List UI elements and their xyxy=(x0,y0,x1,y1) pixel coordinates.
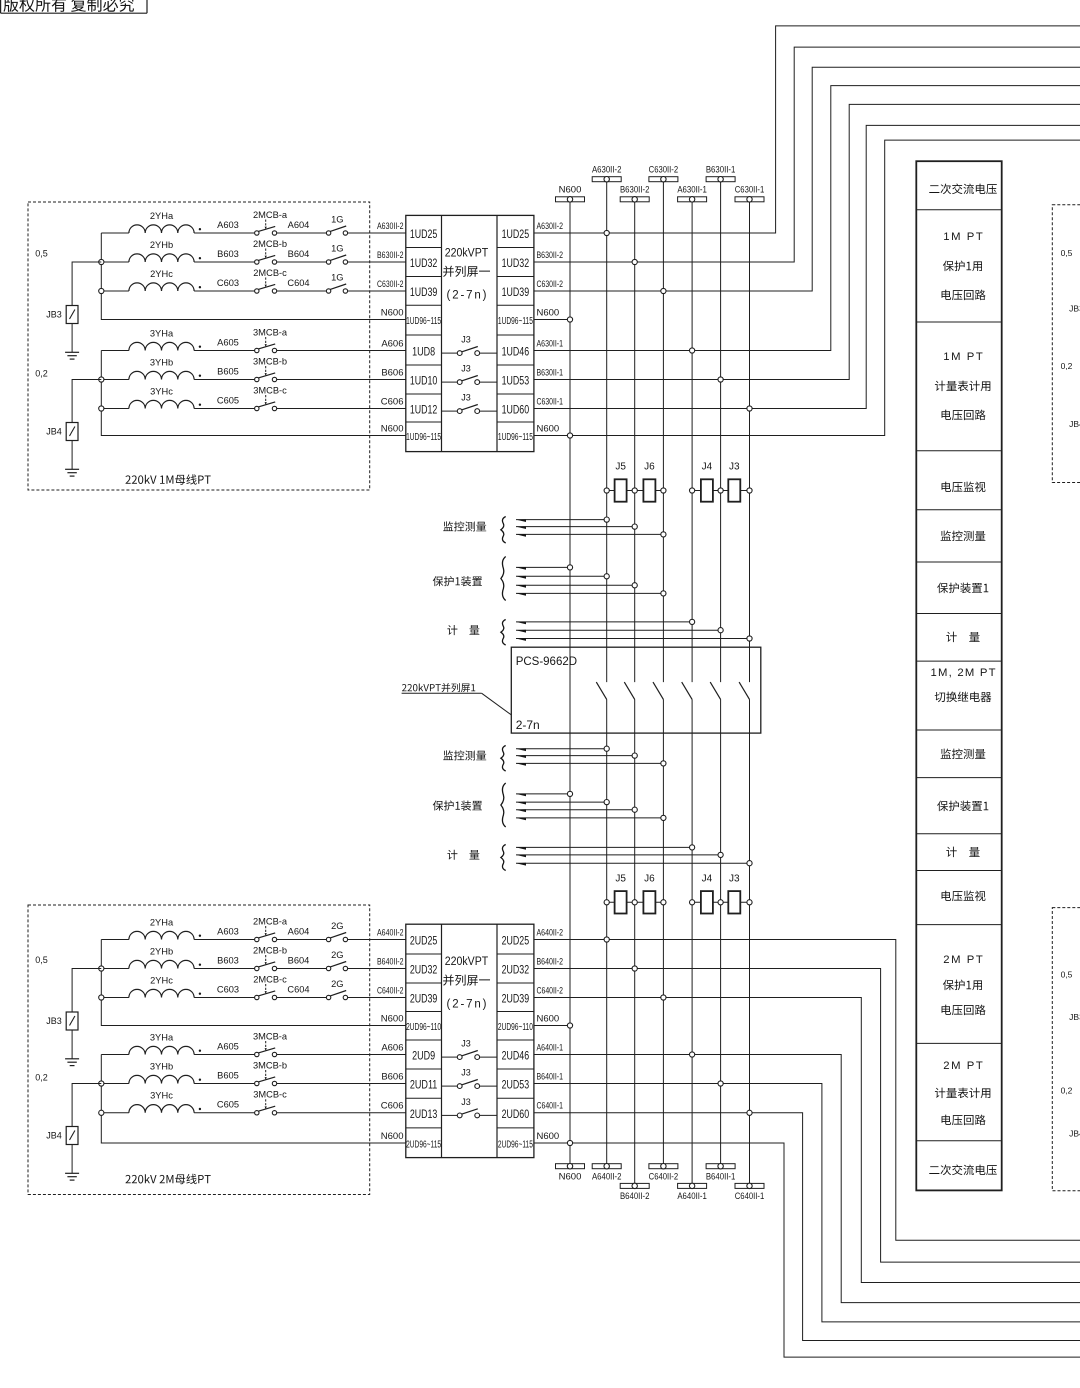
winding 3YHb (220kV 1M bus PT) xyxy=(129,371,194,379)
terminal block 2: cell divider xyxy=(406,1039,442,1041)
svg-text:C604: C604 xyxy=(287,278,309,288)
brace for 保护1装置 xyxy=(501,557,506,601)
bus B630II-2 vertical (above paralleling switch) xyxy=(634,202,636,682)
bus A640II-2 vertical (below paralleling switch) xyxy=(606,699,608,1163)
changeover contact J3 (block 2 row 7) xyxy=(442,1114,458,1116)
junction relay row on A630II-1 (lower) xyxy=(690,900,695,905)
disconnector 2G phase c (220kV 2M bus PT) xyxy=(326,995,330,999)
bus C630II-1 vertical (above paralleling switch) xyxy=(749,202,751,682)
svg-text:2UD25: 2UD25 xyxy=(502,936,530,948)
bus B630II-1 vertical (above paralleling switch) xyxy=(720,182,722,682)
wire 3YHc to 3MCB-c xyxy=(194,408,255,410)
breaker 3MCB-c (220kV 2M bus PT) xyxy=(255,1111,259,1115)
relay coil J3 (upper) xyxy=(721,490,750,492)
bus B640II-1 vertical (below paralleling switch) xyxy=(720,699,722,1163)
junction tap on C630II-2 xyxy=(661,761,666,766)
svg-text:1G: 1G xyxy=(331,243,343,253)
svg-text:J3: J3 xyxy=(729,873,740,884)
relay coil J4 (upper) xyxy=(692,490,721,492)
label 监控测量 xyxy=(443,521,486,531)
relay coil J5 (lower) xyxy=(607,901,635,903)
earth (ground) below JB3 xyxy=(65,1058,79,1060)
svg-text:B630II-1: B630II-1 xyxy=(706,164,736,175)
svg-text:2UD53: 2UD53 xyxy=(502,1080,530,1092)
wire 2G to terminal block row 1 xyxy=(348,939,406,941)
earthing link JB3 (220kV 1M bus PT) xyxy=(72,262,101,306)
svg-text:B606: B606 xyxy=(381,1071,403,1082)
svg-text:0,2: 0,2 xyxy=(1061,361,1073,371)
junction relay row on C630II-2 (upper) xyxy=(661,488,666,493)
breaker 3MCB-b (220kV 1M bus PT) xyxy=(255,377,259,381)
svg-text:2UD60: 2UD60 xyxy=(502,1109,530,1121)
svg-text:A640II-2: A640II-2 xyxy=(377,927,404,938)
wire bus to 3YHc xyxy=(101,1112,129,1114)
paralleling switch blade on B630II-1 xyxy=(710,682,720,699)
svg-text:B640II-1: B640II-1 xyxy=(537,1071,564,1082)
legend 电压回路 (2M) xyxy=(942,1115,986,1126)
svg-text:3MCB-c: 3MCB-c xyxy=(253,385,287,395)
wire 2MCB-b to 1G xyxy=(277,261,327,263)
legend 电压回路 xyxy=(942,410,986,421)
junction tap on C630II-1 xyxy=(747,636,752,641)
220kV 2M bus PT: dashed enclosure xyxy=(28,905,370,1195)
legend 保护1用 (2M) xyxy=(943,980,982,991)
junction relay row on B630II-2 (upper) xyxy=(632,488,637,493)
junction tap on A630II-2 xyxy=(604,746,609,751)
svg-text:C630II-1: C630II-1 xyxy=(735,185,765,196)
svg-text:B630II-2: B630II-2 xyxy=(620,185,650,196)
legend cell divider xyxy=(916,924,1001,926)
wire 2YHc to 2MCB-c xyxy=(194,997,255,999)
bus A640II-1 vertical (below paralleling switch) xyxy=(691,699,693,1183)
svg-text:J3: J3 xyxy=(461,1068,471,1078)
winding 3YHc (220kV 1M bus PT) xyxy=(129,400,194,408)
wire JB3 to earth xyxy=(71,324,73,353)
svg-text:2UD96~115: 2UD96~115 xyxy=(498,1140,533,1151)
tap wire 保护1装置 from N600 xyxy=(516,793,570,795)
terminal strip C640II-1 (bottom) xyxy=(735,1183,764,1188)
svg-text:C603: C603 xyxy=(217,984,239,994)
svg-text:PCS-9662D: PCS-9662D xyxy=(516,656,577,668)
wire 3YHa to 3MCB-a xyxy=(194,350,255,352)
breaker 3MCB-a (220kV 1M bus PT) xyxy=(255,348,259,352)
svg-text:J3: J3 xyxy=(461,335,471,345)
svg-text:1UD60: 1UD60 xyxy=(502,405,530,417)
leader 220kVPT并列屏1 xyxy=(402,683,475,692)
legend 切换继电器 xyxy=(935,692,992,703)
svg-text:C605: C605 xyxy=(217,395,239,405)
svg-text:2M PT: 2M PT xyxy=(943,954,983,966)
svg-text:B640II-2: B640II-2 xyxy=(377,956,404,967)
junction on C640II-1 bus row7 (block2) xyxy=(747,1110,752,1115)
svg-text:2UD39: 2UD39 xyxy=(410,994,438,1006)
svg-text:1UD96~115: 1UD96~115 xyxy=(406,432,441,443)
terminal block 1: cell divider xyxy=(406,421,442,423)
svg-text:J3: J3 xyxy=(461,393,471,403)
wire 2MCB-b to 2G xyxy=(277,968,327,970)
legend cell divider xyxy=(916,1042,1001,1044)
svg-text:C630II-2: C630II-2 xyxy=(537,279,564,290)
legend 计 量 (lower) xyxy=(946,847,979,857)
wire bus to 2YHa xyxy=(101,939,129,941)
brace for 计 量 xyxy=(501,845,506,871)
wire 2YHb to 2MCB-b xyxy=(194,261,255,263)
svg-text:JB3: JB3 xyxy=(46,1016,62,1026)
breaker 2MCB-a (220kV 2M bus PT) xyxy=(255,937,259,941)
paralleling switch blade on B630II-2 xyxy=(624,682,634,699)
label 220kV 2M母线PT xyxy=(125,1174,210,1184)
tap wire 保护1装置 from A630II-2 xyxy=(516,801,607,803)
svg-text:A606: A606 xyxy=(381,338,403,349)
svg-text:2UD32: 2UD32 xyxy=(410,965,438,977)
junction tap on C630II-2 xyxy=(661,815,666,820)
svg-text:A606: A606 xyxy=(381,1042,403,1053)
svg-text:2-7n: 2-7n xyxy=(516,718,540,732)
tap wire 监控测量 from C630II-2 xyxy=(516,533,663,535)
earth (ground) below JB3 xyxy=(65,351,79,353)
junction N600 row4 xyxy=(567,317,572,322)
svg-text:1UD32: 1UD32 xyxy=(502,258,530,270)
wire A640II-2 row1 block2 right, stepped to right edge xyxy=(534,940,1080,1241)
tap wire 保护1装置 from B630II-2 xyxy=(516,584,635,586)
svg-text:J4: J4 xyxy=(702,873,713,884)
junction on B630II-1 bus row6 xyxy=(718,377,723,382)
neutral bus upper group (220kV 1M bus PT) xyxy=(101,233,406,320)
junction relay row on B630II-1 (upper) xyxy=(718,488,723,493)
wire bus to 2YHb xyxy=(101,968,129,970)
terminal block 1: cell divider xyxy=(406,276,442,278)
svg-text:A630II-2: A630II-2 xyxy=(537,221,564,232)
legend cell divider xyxy=(916,321,1001,323)
relay coil J4 (lower) xyxy=(692,901,721,903)
svg-text:A605: A605 xyxy=(217,337,239,347)
wire bus to 3YHc xyxy=(101,408,129,410)
svg-text:C630II-2: C630II-2 xyxy=(649,164,679,175)
breaker 3MCB-c (220kV 1M bus PT) xyxy=(255,406,259,410)
junction on C630II-2 bus row3 xyxy=(661,288,666,293)
earthing link JB4 (220kV 2M bus PT) xyxy=(72,1084,101,1127)
wire bus to 3YHa xyxy=(101,1054,129,1056)
svg-text:C640II-2: C640II-2 xyxy=(377,985,404,996)
svg-text:1M, 2M PT: 1M, 2M PT xyxy=(931,667,996,679)
svg-text:J5: J5 xyxy=(615,462,626,473)
svg-text:B630II-2: B630II-2 xyxy=(537,250,564,261)
wire A630II-1 row5 block1 right, stepped to right edge xyxy=(534,86,1080,351)
svg-text:J3: J3 xyxy=(461,1039,471,1049)
junction on A640II-1 bus row5 (block2) xyxy=(690,1052,695,1057)
svg-text:C604: C604 xyxy=(287,985,309,995)
svg-text:C630II-2: C630II-2 xyxy=(377,279,404,290)
disconnector 2G phase b (220kV 2M bus PT) xyxy=(326,966,330,970)
svg-text:JB3: JB3 xyxy=(1069,304,1080,314)
paralleling switch blade on C630II-1 xyxy=(739,682,749,699)
svg-text:C640II-2: C640II-2 xyxy=(537,985,564,996)
svg-text:2MCB-b: 2MCB-b xyxy=(253,239,287,249)
terminal block 2: cell divider xyxy=(406,953,442,955)
label 版权所有 复制必究 (clipped) xyxy=(3,0,133,12)
legend cell divider xyxy=(916,1140,1001,1142)
breaker 2MCB-c (220kV 2M bus PT) xyxy=(255,995,259,999)
breaker 3MCB-a (220kV 2M bus PT) xyxy=(255,1052,259,1056)
wire 2YHc to 2MCB-c xyxy=(194,290,255,292)
brace for 监控测量 xyxy=(501,746,506,772)
junction tap on A630II-2 xyxy=(604,574,609,579)
svg-text:2UD96~115: 2UD96~115 xyxy=(406,1140,441,1151)
junction on C640II-2 bus row3 (block2) xyxy=(661,995,666,1000)
legend 保护1用 xyxy=(943,261,982,272)
wire 3MCB-c to terminal block row 7 xyxy=(277,1112,406,1114)
svg-text:3YHc: 3YHc xyxy=(150,1091,173,1101)
legend cell divider xyxy=(916,777,1001,779)
svg-text:A640II-1: A640II-1 xyxy=(537,1042,564,1053)
svg-text:C606: C606 xyxy=(381,1101,404,1112)
svg-text:N600: N600 xyxy=(381,307,404,318)
changeover contact J3 (block 2 row 5) xyxy=(442,1056,458,1058)
terminal strip C630II-2 (top) xyxy=(649,177,678,182)
junction relay row on A630II-2 (lower) xyxy=(604,900,609,905)
tap wire 监控测量 from C630II-2 xyxy=(516,762,663,764)
earth (ground) below JB4 xyxy=(65,1172,79,1174)
svg-text:A603: A603 xyxy=(217,220,239,230)
breaker 2MCB-b (220kV 1M bus PT) xyxy=(255,260,259,264)
terminal strip B640II-1 (bottom) xyxy=(706,1164,735,1169)
svg-text:B630II-1: B630II-1 xyxy=(537,367,564,378)
svg-text:3YHb: 3YHb xyxy=(150,357,173,367)
svg-text:J5: J5 xyxy=(615,873,626,884)
svg-text:2M PT: 2M PT xyxy=(943,1060,983,1072)
brace for 监控测量 xyxy=(501,517,506,544)
junction tap on B630II-2 xyxy=(632,807,637,812)
winding 2YHb (220kV 1M bus PT) xyxy=(129,254,194,262)
tap wire 监控测量 from A630II-2 xyxy=(516,748,607,750)
svg-text:0,5: 0,5 xyxy=(1061,248,1073,258)
junction tap on B630II-2 xyxy=(632,524,637,529)
svg-text:N600: N600 xyxy=(381,423,404,434)
bus C630II-2 vertical (above paralleling switch) xyxy=(662,182,664,682)
svg-text:1UD39: 1UD39 xyxy=(410,287,438,299)
svg-text:J3: J3 xyxy=(461,1097,471,1107)
junction tap on C630II-2 xyxy=(661,591,666,596)
wire 2MCB-c to 2G xyxy=(277,997,327,999)
earth (ground) below JB4 xyxy=(65,468,79,470)
svg-text:A640II-2: A640II-2 xyxy=(592,1172,622,1183)
svg-text:220kVPT: 220kVPT xyxy=(445,956,489,968)
svg-text:3MCB-a: 3MCB-a xyxy=(253,1031,288,1041)
bus A630II-1 vertical (above paralleling switch) xyxy=(691,202,693,682)
terminal block 1: right column divider xyxy=(496,215,498,451)
breaker 2MCB-a (220kV 1M bus PT) xyxy=(255,231,259,235)
bus C640II-1 vertical (below paralleling switch) xyxy=(749,699,751,1183)
svg-text:B640II-1: B640II-1 xyxy=(706,1172,736,1183)
svg-text:3MCB-b: 3MCB-b xyxy=(253,356,287,366)
terminal strip B630II-2 (top) xyxy=(620,197,649,202)
legend column frame xyxy=(916,161,1001,1190)
wire 2MCB-a to 2G xyxy=(277,939,327,941)
junction tap on B630II-2 xyxy=(632,753,637,758)
legend 电压回路 (2M) xyxy=(942,1005,986,1016)
svg-text:1UD96~115: 1UD96~115 xyxy=(498,316,533,327)
terminal block 2: left column divider xyxy=(441,924,443,1157)
svg-text:A605: A605 xyxy=(217,1041,239,1051)
wire 3MCB-b to terminal block row 6 xyxy=(277,1083,406,1085)
svg-text:B630II-2: B630II-2 xyxy=(377,250,404,261)
wire C640II-1 row7 block2 right, stepped to right edge xyxy=(534,1113,1080,1341)
wire bus to 2YHc xyxy=(101,997,129,999)
tap wire 计 量 from B630II-1 xyxy=(516,629,721,631)
junction tap on B630II-2 xyxy=(632,583,637,588)
svg-text:C640II-1: C640II-1 xyxy=(537,1101,564,1112)
label 保护1装置 xyxy=(433,800,482,810)
svg-text:B640II-2: B640II-2 xyxy=(537,956,564,967)
wire 3MCB-c to terminal block row 7 xyxy=(277,408,406,410)
wire A640II-1 row5 block2 right, stepped to right edge xyxy=(534,1055,1080,1303)
junction tap on A630II-1 xyxy=(690,845,695,850)
svg-text:2YHb: 2YHb xyxy=(150,240,173,250)
svg-text:N600: N600 xyxy=(381,1013,404,1024)
svg-text:C605: C605 xyxy=(217,1100,239,1110)
terminal strip A640II-2 (bottom) xyxy=(592,1164,621,1169)
svg-text:2UD13: 2UD13 xyxy=(410,1109,438,1121)
svg-text:2UD39: 2UD39 xyxy=(502,994,530,1006)
svg-text:A640II-1: A640II-1 xyxy=(677,1191,707,1202)
terminal block 2: cell divider xyxy=(406,1011,442,1013)
legend cell divider xyxy=(916,833,1001,835)
svg-text:3YHb: 3YHb xyxy=(150,1061,173,1071)
winding 2YHa (220kV 2M bus PT) xyxy=(129,931,194,939)
svg-text:0,5: 0,5 xyxy=(35,955,48,965)
svg-text:1UD96~115: 1UD96~115 xyxy=(406,316,441,327)
svg-text:2G: 2G xyxy=(331,950,343,960)
terminal block 1: cell divider xyxy=(406,334,442,336)
svg-text:2G: 2G xyxy=(331,979,343,989)
junction on C630II-1 bus row7 xyxy=(747,406,752,411)
legend 电压回路 xyxy=(942,290,986,301)
svg-text:1UD10: 1UD10 xyxy=(410,376,438,388)
svg-text:A603: A603 xyxy=(217,926,239,936)
wire N600 row4 block1 to N600 bus xyxy=(534,319,570,321)
wire 2YHb to 2MCB-b xyxy=(194,968,255,970)
svg-text:3YHa: 3YHa xyxy=(150,1032,174,1042)
junction on A640II-2 bus row1 (block2) xyxy=(604,937,609,942)
tap wire 计 量 from C630II-1 xyxy=(516,638,750,640)
svg-text:1UD53: 1UD53 xyxy=(502,376,530,388)
wire 2YHa to 2MCB-a xyxy=(194,232,255,234)
svg-text:2G: 2G xyxy=(331,921,343,931)
wire 2YHa to 2MCB-a xyxy=(194,939,255,941)
junction tap on N600 xyxy=(567,791,572,796)
bus B640II-2 vertical (below paralleling switch) xyxy=(634,699,636,1183)
title block (top-left, clipped) xyxy=(0,0,2,13)
legend 电压监视 (lower) xyxy=(942,891,986,902)
svg-text:2YHb: 2YHb xyxy=(150,946,173,956)
relay coil J6 (upper) xyxy=(635,490,664,492)
tap wire 监控测量 from B630II-2 xyxy=(516,755,635,757)
svg-text:2UD32: 2UD32 xyxy=(502,965,530,977)
legend cell divider xyxy=(916,729,1001,731)
legend 二次交流电压 (bottom) xyxy=(929,1164,997,1175)
svg-text:1UD25: 1UD25 xyxy=(410,229,438,241)
paralleling device PCS-9662D box xyxy=(511,647,761,733)
brace for 计 量 xyxy=(501,620,506,646)
svg-text:C640II-1: C640II-1 xyxy=(735,1191,765,1202)
winding 2YHb (220kV 2M bus PT) xyxy=(129,960,194,968)
junction on A630II-2 bus row1 xyxy=(604,230,609,235)
svg-text:A630II-2: A630II-2 xyxy=(592,164,622,175)
tap wire 保护1装置 from C630II-2 xyxy=(516,592,663,594)
wire 3YHb to 3MCB-b xyxy=(194,1083,255,1085)
far-right dashed enclosure (bottom, clipped) xyxy=(1052,908,1080,1191)
svg-text:3YHa: 3YHa xyxy=(150,328,174,338)
tap wire 计 量 from A630II-1 xyxy=(516,846,692,848)
relay coil J3 (lower) xyxy=(721,901,750,903)
svg-text:1G: 1G xyxy=(331,214,343,224)
tap wire 保护1装置 from C630II-2 xyxy=(516,817,663,819)
terminal strip B640II-2 (bottom) xyxy=(620,1183,649,1188)
wire JB4 to earth xyxy=(71,441,73,470)
svg-text:1UD96~115: 1UD96~115 xyxy=(498,432,533,443)
junction tap on A630II-2 xyxy=(604,517,609,522)
junction relay row on A630II-2 (upper) xyxy=(604,488,609,493)
winding 3YHa (220kV 2M bus PT) xyxy=(129,1046,194,1054)
svg-text:J3: J3 xyxy=(729,462,740,473)
svg-text:C640II-2: C640II-2 xyxy=(649,1172,679,1183)
paralleling switch blade on C630II-2 xyxy=(653,682,663,699)
svg-text:B603: B603 xyxy=(217,249,239,259)
terminal strip A640II-1 (bottom) xyxy=(678,1183,707,1188)
svg-text:N600: N600 xyxy=(537,1013,560,1024)
wire 2G to terminal block row 3 xyxy=(348,997,406,999)
junction on B640II-1 bus row6 (block2) xyxy=(718,1081,723,1086)
wire 1G to terminal block row 1 xyxy=(348,232,406,234)
svg-text:2YHa: 2YHa xyxy=(150,917,174,927)
terminal block 2: cell divider xyxy=(406,1127,442,1129)
junction tap on A630II-2 xyxy=(604,800,609,805)
svg-text:B640II-2: B640II-2 xyxy=(620,1191,650,1202)
wire 3MCB-b to terminal block row 6 xyxy=(277,379,406,381)
terminal strip C640II-2 (bottom) xyxy=(649,1164,678,1169)
svg-text:A604: A604 xyxy=(288,927,310,937)
svg-text:2MCB-b: 2MCB-b xyxy=(253,945,287,955)
label 计 量 xyxy=(447,625,479,635)
wire N600 row8 block2 right, stepped to right edge xyxy=(534,1143,1080,1357)
svg-text:2MCB-c: 2MCB-c xyxy=(253,974,287,984)
legend 保护装置1 xyxy=(937,583,988,594)
legend cell divider xyxy=(916,561,1001,563)
wire C630II-2 row3 block1 right, stepped to right edge xyxy=(534,67,1080,291)
svg-text:J6: J6 xyxy=(644,462,655,473)
terminal strip A630II-1 (top) xyxy=(678,197,707,202)
bus C640II-2 vertical (below paralleling switch) xyxy=(662,699,664,1163)
svg-text:1UD12: 1UD12 xyxy=(410,405,438,417)
legend 计 量 xyxy=(946,632,979,642)
terminal block 1: cell divider xyxy=(406,247,442,249)
earthing link JB4 (220kV 1M bus PT) xyxy=(72,380,101,423)
breaker 2MCB-c (220kV 1M bus PT) xyxy=(255,289,259,293)
tap wire 监控测量 from B630II-2 xyxy=(516,526,635,528)
svg-text:2MCB-c: 2MCB-c xyxy=(253,268,287,278)
svg-text:N600: N600 xyxy=(537,423,560,434)
svg-text:2UD96~110: 2UD96~110 xyxy=(498,1022,533,1033)
svg-text:1UD46: 1UD46 xyxy=(502,347,530,359)
tap wire 计 量 from A630II-1 xyxy=(516,621,692,623)
svg-text:B606: B606 xyxy=(381,367,403,378)
junction on B640II-2 bus row2 (block2) xyxy=(632,966,637,971)
svg-text:N600: N600 xyxy=(559,1172,582,1183)
svg-text:J6: J6 xyxy=(644,873,655,884)
svg-text:220kVPT: 220kVPT xyxy=(445,247,489,259)
bus N600 vertical xyxy=(569,202,571,1164)
junction relay row on B630II-1 (lower) xyxy=(718,900,723,905)
